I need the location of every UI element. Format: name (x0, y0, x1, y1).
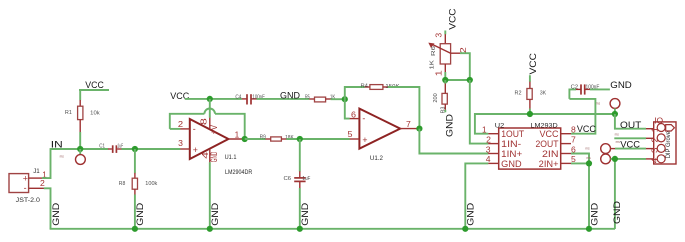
svg-text:200: 200 (433, 93, 439, 102)
wire VCC down to op-amp pin 8 (209, 99, 211, 118)
svg-text:U1.2: U1.2 (370, 155, 383, 162)
svg-text:OUT: OUT (620, 120, 641, 131)
svg-text:3: 3 (650, 147, 660, 153)
ground bus wire (50, 228, 615, 230)
svg-text:+V: +V (209, 125, 219, 135)
wire pin2 (170, 128, 181, 130)
junction U2 gnd/bus (462, 226, 468, 232)
test pin circle VCC (601, 140, 621, 154)
wire wiper to junction (460, 53, 470, 80)
svg-text:8: 8 (198, 118, 208, 125)
pin 4 (646, 158, 654, 160)
wire R5 to junction (331, 98, 345, 100)
svg-text:GND: GND (210, 203, 221, 226)
capacitor C2 100nF (569, 84, 600, 99)
junction pin7/R4 (416, 126, 422, 132)
wire dangling to connector pin2 (614, 132, 646, 138)
svg-text:GND: GND (280, 90, 300, 101)
svg-text:1: 1 (235, 129, 240, 139)
junction R8/bus (132, 226, 138, 232)
pin 7 stub (400, 128, 419, 130)
wire C6 to GND bus (299, 188, 301, 229)
svg-text:1IN-: 1IN- (501, 139, 521, 149)
svg-text:2: 2 (178, 119, 183, 129)
svg-text:VCC: VCC (448, 8, 459, 30)
resistor R4 150K (361, 83, 400, 90)
svg-text:3: 3 (433, 33, 443, 38)
test pin circle GND (601, 154, 611, 164)
svg-text:VCC: VCC (540, 129, 560, 139)
wire U2 pin8 VCC to C2 (569, 99, 600, 134)
svg-text:GND: GND (445, 114, 456, 137)
pin 5 2IN+ (561, 162, 571, 164)
svg-text:GND: GND (135, 203, 146, 226)
wire R9 to U1.2 pin5 (286, 138, 349, 140)
wire pot pin1 down (444, 72, 446, 80)
svg-text:2IN: 2IN (542, 149, 559, 159)
wire joining pot pins (445, 79, 470, 81)
capacitor C1 1uF (99, 144, 123, 153)
pin 2 1IN- (488, 143, 499, 145)
svg-text:VCC: VCC (85, 80, 104, 91)
node VCC at U1.1 (170, 91, 242, 102)
wire U2 pin6 down to pin5 (571, 147, 590, 164)
junction pin5/pin6 (586, 160, 592, 166)
svg-text:VCC: VCC (528, 53, 539, 75)
junction pin5 wire/bus (586, 226, 592, 232)
svg-text:ms: ms (585, 147, 590, 151)
svg-text:GND: GND (610, 80, 632, 91)
svg-text:VCC: VCC (577, 124, 596, 135)
svg-text:3: 3 (178, 138, 183, 148)
svg-text:-: - (193, 124, 196, 134)
pin 1 1OUT (488, 133, 499, 135)
junction pot pin1/R3 (442, 77, 448, 83)
wire junction down to U2 pin2 (470, 80, 489, 144)
pin 3 stub (180, 148, 189, 150)
svg-text:2: 2 (486, 134, 491, 144)
svg-text:1IN+: 1IN+ (501, 149, 522, 159)
node VCC rotated at pot (445, 8, 458, 34)
wire J1 pin2 to GND bus (44, 188, 51, 229)
svg-text:GND: GND (300, 203, 311, 226)
pin 4 stub GND (209, 149, 211, 162)
wire C2 right to GND label (590, 88, 610, 90)
wire R4 to pin7 junction (388, 87, 420, 129)
test pin circle at OUT (610, 99, 620, 109)
svg-text:1K: 1K (430, 60, 436, 70)
wire U2 pin1 up and right (1OUT net) (475, 114, 615, 134)
svg-text:R4: R4 (361, 83, 368, 89)
svg-text:R5: R5 (305, 94, 310, 100)
wire pin7 down and right to U2 pin3 (419, 129, 488, 154)
pin 2 stub (180, 128, 189, 130)
wire circle to OUT junction (614, 108, 616, 114)
svg-text:J1: J1 (33, 168, 40, 175)
wire R8 to GND bus (134, 195, 136, 229)
junction R9/C6 (297, 136, 303, 142)
op-amp U1.2 (348, 109, 420, 162)
connector J2 DIP Grove (646, 116, 676, 165)
junction C1/R8 (132, 146, 138, 152)
wire C4 to R5 (GND net) (257, 98, 310, 100)
wire pin1 to R9 (245, 138, 266, 140)
pin 6 2IN- (561, 153, 571, 155)
resistor R8 100k (119, 173, 158, 195)
junction pin4 wire/bus (207, 226, 213, 232)
pin 1 stub (228, 138, 244, 140)
svg-text:2: 2 (458, 47, 468, 53)
pin 2 of J1 (29, 187, 44, 189)
pin 1 of J1 (29, 177, 43, 179)
svg-text:7: 7 (571, 134, 576, 144)
svg-text:+: + (362, 135, 367, 145)
wire VCC circle to connector pin3 (611, 140, 647, 151)
svg-text:GND: GND (501, 159, 521, 169)
svg-text:ms: ms (596, 102, 601, 106)
svg-text:LM2904DR: LM2904DR (225, 169, 253, 176)
svg-text:ms: ms (587, 156, 592, 160)
svg-text:ms: ms (615, 132, 620, 136)
connector J1 JST-2.0 (9, 168, 47, 204)
wire U2 pin5 to GND bus (571, 156, 591, 229)
capacitor C6 1uF (284, 171, 311, 188)
svg-text:2: 2 (40, 178, 45, 188)
svg-text:7: 7 (406, 119, 411, 129)
svg-text:VCC: VCC (170, 91, 189, 102)
op-amp U1.1 feedback wire with hop (170, 109, 245, 139)
svg-text:1OUT: 1OUT (501, 129, 525, 139)
junction pin1/feedback (242, 136, 248, 142)
svg-text:1: 1 (650, 127, 660, 133)
svg-text:JST-2.0: JST-2.0 (16, 197, 41, 204)
wire R2 to 1OUT net (529, 109, 531, 114)
svg-text:VCC: VCC (620, 140, 640, 151)
junction VCC/pin8 drop (207, 96, 213, 102)
wire OUT to connector pin1 (615, 114, 646, 131)
pin 8 stub +V (209, 118, 211, 129)
svg-text:2: 2 (650, 137, 660, 143)
svg-text:C2: C2 (571, 84, 578, 90)
svg-text:GND: GND (51, 203, 62, 226)
pin 3 (646, 148, 654, 150)
wire junction down to R8 (134, 149, 136, 173)
pin 5 stub (350, 138, 360, 140)
wire junction down to C6 (299, 139, 301, 172)
junction R5/R4/pin6 (342, 96, 348, 102)
svg-text:GND: GND (589, 203, 600, 226)
wire VCC to R1 top (79, 90, 81, 100)
svg-text:U1.1: U1.1 (225, 154, 237, 161)
svg-text:R8: R8 (119, 181, 126, 187)
resistor R2 3K (515, 82, 547, 109)
wire U2 pin4 to GND bus (465, 163, 488, 228)
capacitor C4 100nF (235, 94, 265, 104)
pin 6 stub (350, 118, 360, 120)
pin 7 2OUT (561, 143, 571, 145)
svg-text:3K: 3K (540, 91, 546, 97)
wire J1 pin1 to IN (42, 148, 51, 178)
svg-text:C1: C1 (99, 144, 105, 150)
pin 3 1IN+ (488, 153, 499, 155)
test pin circle at IN (60, 154, 86, 164)
svg-text:R2: R2 (515, 91, 522, 97)
chip U2 LM293D (482, 123, 576, 170)
svg-text:2IN+: 2IN+ (539, 159, 559, 169)
svg-text:ms: ms (60, 154, 65, 158)
svg-text:100k: 100k (145, 181, 157, 187)
svg-text:R1: R1 (65, 110, 72, 116)
potentiometer R6 1K (428, 33, 468, 77)
svg-text:+: + (193, 145, 198, 155)
junction R2/1OUT (527, 111, 533, 117)
pin 4 GND (488, 162, 499, 164)
svg-text:1uF: 1uF (302, 176, 311, 182)
node VCC rotated at R2 (528, 53, 539, 82)
pin 8 VCC (561, 133, 571, 135)
wire stub to test pin circle (79, 149, 81, 155)
svg-text:10k: 10k (90, 110, 100, 116)
pin 2 (646, 137, 654, 139)
svg-text:2OUT: 2OUT (536, 139, 560, 149)
junction wiper/1IN- (467, 77, 473, 83)
resistor R3 200 (433, 80, 447, 114)
wire junction down to pin 6 (345, 99, 350, 118)
svg-text:R6: R6 (431, 46, 437, 56)
op-amp U1.1 LM2904DR (178, 118, 253, 176)
svg-text:C6: C6 (284, 176, 292, 182)
resistor R5 1K (305, 94, 335, 102)
svg-text:6: 6 (351, 110, 356, 120)
svg-text:R3: R3 (441, 107, 447, 114)
svg-text:-: - (362, 113, 365, 123)
svg-text:-: - (24, 183, 27, 193)
resistor R1 10k (65, 100, 100, 132)
junction GND circle (612, 156, 618, 162)
svg-text:DIP Grove: DIP Grove (665, 131, 672, 159)
wire R1 bottom to IN net (79, 132, 81, 149)
junction OUT (612, 111, 618, 117)
svg-text:GND: GND (612, 201, 623, 224)
wire junction up and over R4 (345, 87, 365, 99)
svg-text:GND: GND (209, 152, 219, 163)
svg-text:GND: GND (466, 203, 477, 226)
node IN (51, 139, 109, 150)
svg-text:3: 3 (486, 144, 491, 154)
wire C1 to opamp pin3 (122, 148, 181, 150)
junction IN/R1 (77, 146, 83, 152)
wire GND circle to connector pin4 and bus (611, 159, 647, 229)
pin 1 (646, 128, 654, 130)
svg-text:4: 4 (650, 157, 660, 163)
node VCC at R1 (79, 80, 109, 91)
svg-text:C4: C4 (235, 94, 241, 100)
svg-text:1: 1 (434, 70, 444, 76)
svg-text:5: 5 (348, 129, 353, 139)
resistor R9 18K (260, 135, 294, 142)
svg-text:R9: R9 (260, 135, 266, 141)
junction C6/bus (297, 226, 303, 232)
wire op-amp pin4 to GND bus (209, 162, 211, 229)
